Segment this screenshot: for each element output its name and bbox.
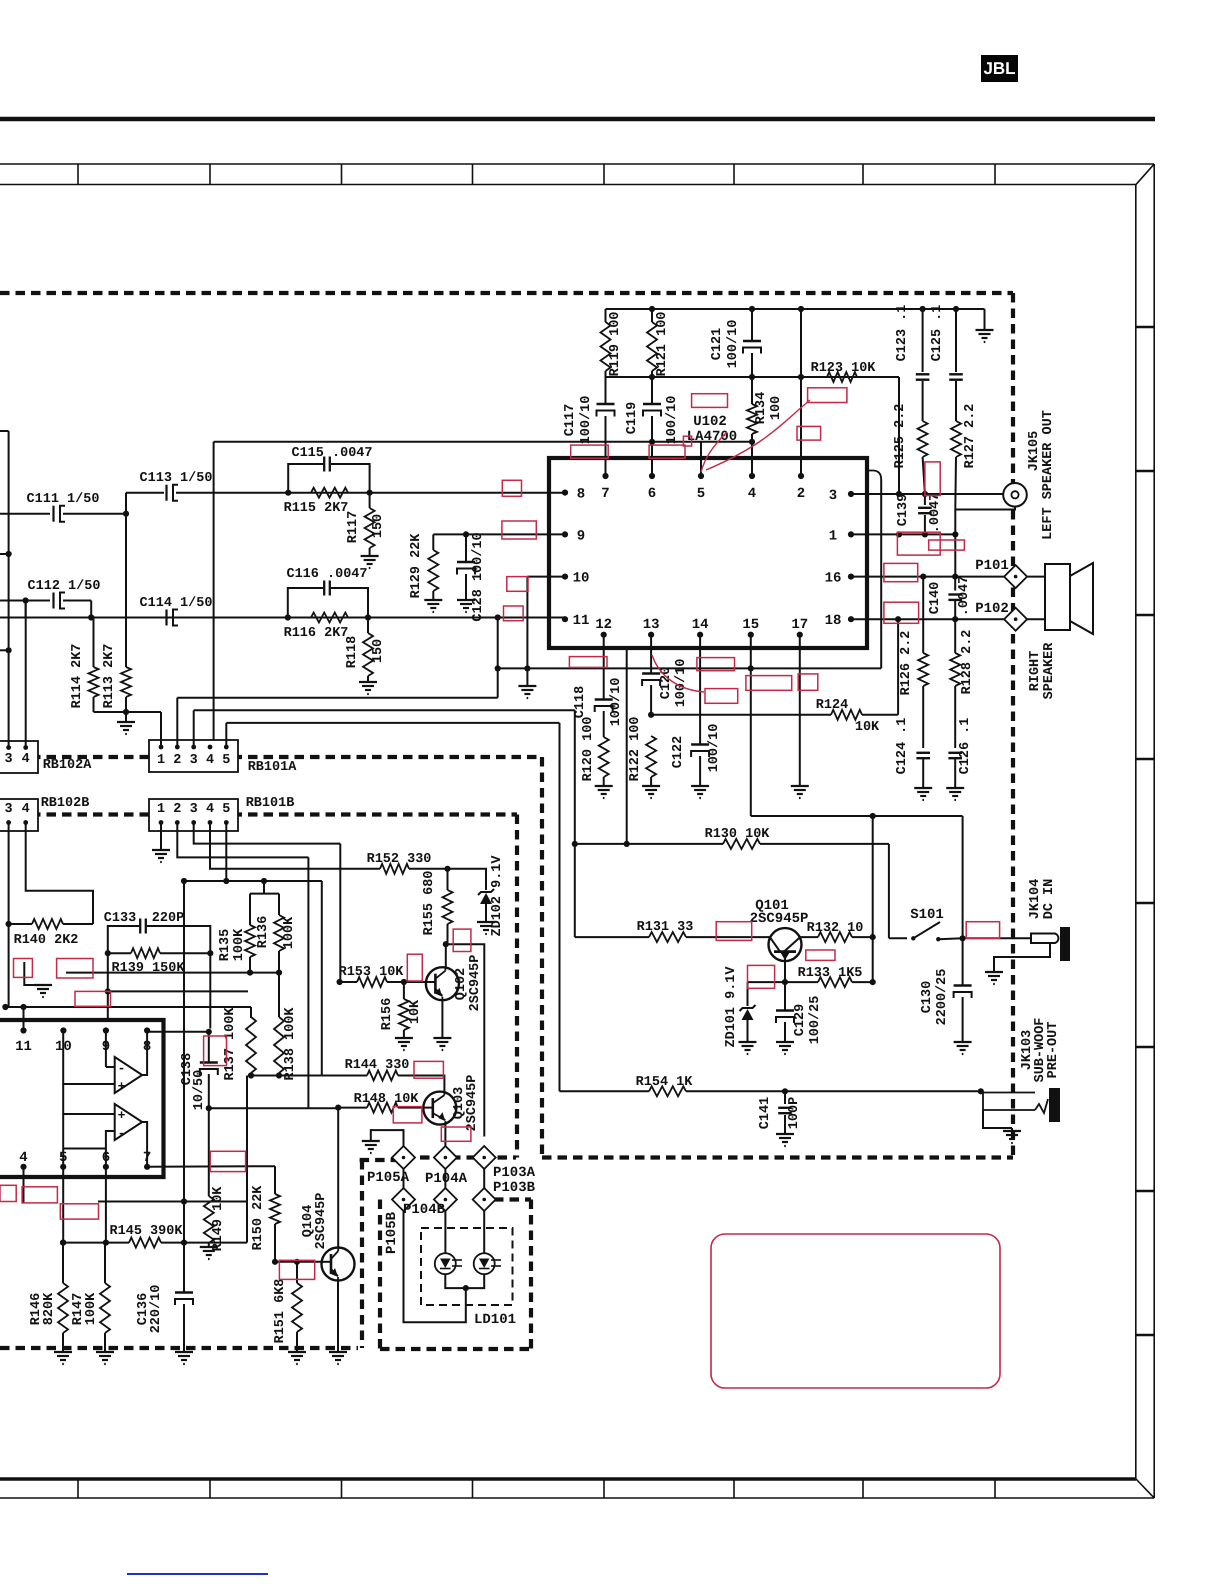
svg-text:10K: 10K bbox=[408, 999, 423, 1024]
op-amp IC U102 box bbox=[549, 458, 867, 648]
ground below R117 bbox=[361, 555, 379, 557]
wire R137 R138 bottoms to R144 row bbox=[251, 1075, 322, 1077]
capacitor C115 .0047 bbox=[288, 464, 323, 493]
svg-text:2: 2 bbox=[797, 486, 805, 502]
svg-text:-: - bbox=[118, 1061, 126, 1076]
svg-text:2SC945P: 2SC945P bbox=[468, 955, 483, 1012]
resistor R137 100K bbox=[250, 1007, 252, 1017]
capacitor C121 100/10 bbox=[751, 309, 753, 341]
JBL logo bbox=[981, 55, 1018, 82]
svg-text:R131 33: R131 33 bbox=[637, 920, 694, 935]
wire R123 to pin3 bbox=[898, 377, 900, 494]
svg-text:4: 4 bbox=[22, 802, 30, 817]
wire pin18 to P102 bbox=[851, 618, 1004, 620]
svg-text:R119 100: R119 100 bbox=[608, 312, 623, 377]
capacitor C136 220/10 bbox=[183, 1243, 185, 1293]
svg-text:P102: P102 bbox=[975, 601, 1009, 617]
svg-text:10K: 10K bbox=[855, 720, 880, 735]
blue reference line bbox=[127, 1573, 268, 1575]
wires into RB101A bbox=[160, 712, 162, 747]
svg-text:R117: R117 bbox=[346, 511, 361, 543]
svg-text:C126 .1: C126 .1 bbox=[958, 718, 973, 775]
resistor R123 10K bbox=[801, 376, 827, 378]
U101 bottom pins 4 5 6 7 bbox=[20, 1164, 26, 1170]
svg-text:.0047: .0047 bbox=[928, 493, 943, 534]
U101 top pins 11 10 9 8 bbox=[20, 1027, 26, 1033]
svg-text:R154 1K: R154 1K bbox=[636, 1075, 694, 1090]
svg-text:R156: R156 bbox=[380, 998, 395, 1030]
svg-text:+: + bbox=[118, 1079, 126, 1094]
U102 tab stub to pin16 net bbox=[866, 471, 881, 480]
RB101B pin wires bbox=[160, 823, 162, 851]
capacitor C112 1/50 bbox=[0, 600, 50, 602]
svg-text:2: 2 bbox=[173, 753, 181, 768]
connector P103B bbox=[473, 1188, 496, 1211]
svg-text:RB102B: RB102B bbox=[41, 796, 90, 811]
svg-text:13: 13 bbox=[643, 617, 660, 633]
capacitor C117 100/10 bbox=[605, 377, 607, 404]
svg-text:5: 5 bbox=[697, 486, 705, 502]
svg-text:P103A: P103A bbox=[493, 1165, 536, 1181]
svg-text:SPEAKER: SPEAKER bbox=[1042, 642, 1057, 700]
svg-text:C124 .1: C124 .1 bbox=[895, 718, 910, 775]
svg-text:R113 2K7: R113 2K7 bbox=[102, 644, 117, 709]
svg-text:8: 8 bbox=[577, 487, 585, 503]
svg-text:C113 1/50: C113 1/50 bbox=[140, 471, 213, 486]
svg-text:2SC945P: 2SC945P bbox=[465, 1075, 480, 1132]
capacitor C116 .0047 bbox=[288, 588, 323, 618]
svg-text:R127 2.2: R127 2.2 bbox=[963, 404, 978, 469]
svg-text:150: 150 bbox=[371, 514, 386, 538]
wire pin16 to P101 bbox=[851, 576, 1004, 578]
svg-text:DC IN: DC IN bbox=[1042, 879, 1057, 920]
svg-text:16: 16 bbox=[825, 571, 842, 587]
connector P101 bbox=[1004, 565, 1027, 588]
svg-text:C141: C141 bbox=[758, 1097, 773, 1129]
wire pin10 to ground bbox=[527, 576, 565, 578]
svg-text:R126 2.2: R126 2.2 bbox=[899, 631, 914, 696]
op-amp A wires bbox=[105, 1031, 107, 1068]
svg-text:-: - bbox=[118, 1126, 126, 1141]
svg-text:3: 3 bbox=[190, 753, 198, 768]
svg-text:RIGHT: RIGHT bbox=[1028, 651, 1043, 692]
wire row pin11 / C114 / R116 bbox=[0, 617, 565, 619]
transistor Q101 2SC945P bbox=[769, 928, 802, 961]
U102 right pins 3 1 16 18 bbox=[848, 491, 854, 497]
Q104 base wire bbox=[275, 1261, 321, 1263]
capacitor C118 100/10 bbox=[603, 635, 605, 700]
LED LD101 wires bbox=[444, 1211, 446, 1254]
resistor R113 2K7 bbox=[121, 667, 131, 697]
resistor R134 100 bbox=[747, 404, 757, 434]
svg-text:2SC945P: 2SC945P bbox=[314, 1193, 329, 1250]
svg-text:10: 10 bbox=[573, 571, 590, 587]
resistor R116 2K7 bbox=[311, 613, 348, 623]
svg-text:C114 1/50: C114 1/50 bbox=[140, 596, 213, 611]
LD101 inner dashed box bbox=[421, 1228, 513, 1305]
svg-text:10/50: 10/50 bbox=[192, 1070, 207, 1111]
op-amp B triangle bbox=[115, 1104, 143, 1140]
svg-text:2: 2 bbox=[173, 802, 181, 817]
svg-text:LD101: LD101 bbox=[474, 1312, 516, 1328]
resistor R119 100 bbox=[605, 309, 607, 322]
svg-text:100/25: 100/25 bbox=[808, 996, 823, 1045]
svg-text:R145 390K: R145 390K bbox=[110, 1224, 184, 1239]
svg-text:RB101B: RB101B bbox=[246, 796, 295, 811]
capacitor C129 100/25 bbox=[784, 982, 786, 1010]
resistor R126 2.2 bbox=[922, 577, 924, 653]
svg-text:4: 4 bbox=[206, 753, 214, 768]
transistor Q103 2SC945P bbox=[423, 1092, 456, 1125]
svg-text:1: 1 bbox=[157, 753, 165, 768]
resistor R155 680 bbox=[447, 869, 449, 890]
resistor R150 22K bbox=[274, 1166, 276, 1194]
capacitor C128 100/10 bbox=[465, 534, 467, 562]
resistor R151 6K8 bbox=[296, 1262, 298, 1283]
svg-text:R114 2K7: R114 2K7 bbox=[70, 644, 85, 709]
resistor R114 2K7 bbox=[25, 601, 27, 618]
resistor R156 10K bbox=[403, 982, 405, 999]
resistor R117 150 bbox=[369, 493, 371, 508]
svg-text:JBL: JBL bbox=[983, 59, 1015, 78]
wires between A and B connector rows bbox=[403, 1169, 405, 1188]
capacitor C114 1/50 bbox=[165, 610, 167, 626]
svg-text:R121 100: R121 100 bbox=[655, 312, 670, 377]
transistor Q102 2SC945P bbox=[426, 967, 459, 1000]
wire C133 node down to opamp bbox=[107, 953, 109, 991]
svg-text:R137 100K: R137 100K bbox=[223, 1007, 238, 1081]
svg-text:150: 150 bbox=[371, 639, 386, 663]
svg-text:RB102A: RB102A bbox=[43, 758, 93, 773]
svg-text:3: 3 bbox=[829, 488, 837, 504]
svg-text:ZD102 9.1V: ZD102 9.1V bbox=[490, 855, 505, 937]
resistor R153 10K bbox=[337, 979, 343, 985]
connector P103A bbox=[473, 1146, 496, 1169]
svg-text:220/10: 220/10 bbox=[149, 1285, 164, 1334]
resistor R154 1K bbox=[560, 1090, 650, 1092]
LD101 board dashed outline bbox=[378, 1200, 382, 1350]
svg-text:R149 10K: R149 10K bbox=[211, 1186, 226, 1252]
svg-text:9: 9 bbox=[577, 528, 585, 544]
svg-text:P104B: P104B bbox=[403, 1202, 446, 1218]
svg-text:220P: 220P bbox=[152, 911, 184, 926]
R129 22K bbox=[433, 533, 565, 535]
capacitor C124 .1 bbox=[916, 752, 930, 754]
resistor R122 100 bbox=[646, 736, 656, 777]
Q104 emitter ground bbox=[337, 1281, 339, 1353]
svg-text:C128 100/10: C128 100/10 bbox=[471, 532, 486, 621]
resistor R132 10 bbox=[800, 936, 818, 938]
svg-text:C112 1/50: C112 1/50 bbox=[28, 579, 101, 594]
switch S101 bbox=[889, 937, 907, 939]
U102 left pins 8 9 10 11 bbox=[562, 490, 568, 496]
resistor R152 330 bbox=[380, 864, 409, 874]
svg-text:LEFT SPEAKER OUT: LEFT SPEAKER OUT bbox=[1041, 410, 1056, 540]
capacitor C123 .1 bbox=[922, 309, 924, 372]
wire node row bbox=[108, 990, 248, 992]
resistor R128 2.2 bbox=[954, 619, 956, 653]
svg-text:R133 1K5: R133 1K5 bbox=[798, 966, 863, 981]
capacitor C125 .1 bbox=[955, 309, 957, 372]
svg-text:100: 100 bbox=[769, 396, 784, 420]
svg-text:R153 10K: R153 10K bbox=[339, 965, 405, 980]
resistor R139 150K bbox=[105, 950, 111, 956]
svg-text:C121: C121 bbox=[710, 328, 725, 360]
svg-text:Q102: Q102 bbox=[454, 968, 469, 1000]
svg-text:R148 10K: R148 10K bbox=[354, 1092, 420, 1107]
resistor R136 100K bbox=[278, 894, 280, 915]
connector RB102B bbox=[0, 799, 38, 831]
svg-text:2200/25: 2200/25 bbox=[935, 969, 950, 1026]
resistor R125 2.2 bbox=[918, 421, 928, 457]
svg-text:5: 5 bbox=[222, 753, 230, 768]
svg-text:+: + bbox=[118, 1108, 126, 1123]
svg-text:R129 22K: R129 22K bbox=[409, 533, 424, 599]
op-amp A triangle bbox=[115, 1057, 143, 1093]
svg-text:R144 330: R144 330 bbox=[345, 1058, 410, 1073]
svg-text:C119: C119 bbox=[625, 402, 640, 434]
resistor R140 2K2 bbox=[8, 823, 10, 925]
wire pin15 down bbox=[750, 635, 752, 816]
ground below R118 bbox=[359, 681, 377, 683]
wire R145 row up to R137 bbox=[246, 1076, 248, 1243]
svg-text:R151 6K8: R151 6K8 bbox=[273, 1279, 288, 1344]
connector P104A bbox=[434, 1146, 457, 1169]
svg-text:R122 100: R122 100 bbox=[628, 717, 643, 782]
resistor R124 10K bbox=[651, 714, 831, 716]
zener ZD101 9.1V bbox=[748, 981, 786, 983]
ground below R129 bbox=[424, 599, 442, 601]
svg-text:.0047: .0047 bbox=[957, 576, 972, 617]
svg-text:C133: C133 bbox=[104, 911, 136, 926]
LED 2 bbox=[474, 1253, 495, 1274]
red annotation curves bbox=[706, 400, 810, 470]
svg-text:R120 100: R120 100 bbox=[581, 717, 596, 782]
LED 1 bbox=[435, 1253, 456, 1274]
sub board dashed outline bbox=[0, 812, 517, 816]
svg-text:3: 3 bbox=[5, 752, 13, 767]
capacitor C138 10/50 bbox=[208, 1032, 210, 1062]
svg-text:C122: C122 bbox=[671, 736, 686, 768]
wire Q101 collector node down bbox=[872, 816, 874, 982]
svg-text:R134: R134 bbox=[754, 392, 769, 424]
svg-text:6: 6 bbox=[648, 486, 656, 502]
svg-text:3: 3 bbox=[5, 802, 13, 817]
svg-text:4: 4 bbox=[206, 802, 214, 817]
capacitor C122 100/10 bbox=[699, 635, 701, 744]
svg-text:R115 2K7: R115 2K7 bbox=[284, 501, 349, 516]
capacitor C111 1/50 bbox=[0, 513, 50, 515]
svg-text:R116 2K7: R116 2K7 bbox=[284, 626, 349, 641]
connector P105A bbox=[392, 1146, 415, 1169]
ground stub near P105A bbox=[371, 1130, 404, 1146]
ground stub left bbox=[24, 962, 43, 985]
jack JK105 left speaker out bbox=[1003, 483, 1027, 507]
jack JK104 DC IN bbox=[963, 937, 1031, 939]
resistor R138 100K bbox=[274, 1017, 284, 1073]
ground below C128 bbox=[457, 599, 475, 601]
svg-text:R125 2.2: R125 2.2 bbox=[893, 404, 908, 469]
capacitor C119 100/10 bbox=[651, 377, 653, 404]
resistor R131 33 bbox=[575, 936, 649, 938]
capacitor C140 .0047 bbox=[954, 577, 956, 591]
svg-text:100K: 100K bbox=[232, 928, 247, 961]
svg-text:C125 .1: C125 .1 bbox=[930, 305, 945, 362]
svg-text:P105B: P105B bbox=[384, 1211, 400, 1254]
zener ZD102 9.1V bbox=[448, 869, 487, 890]
svg-text:100K: 100K bbox=[282, 916, 297, 949]
svg-text:R139 150K: R139 150K bbox=[112, 961, 186, 976]
C136 column bbox=[183, 881, 185, 1243]
capacitor C133 220P bbox=[108, 926, 139, 953]
svg-text:3: 3 bbox=[190, 802, 198, 817]
svg-text:RB101A: RB101A bbox=[248, 760, 298, 775]
svg-text:U102: U102 bbox=[693, 414, 727, 430]
pin 5 6 wires to R145 row bbox=[62, 1167, 64, 1243]
resistor R144 330 bbox=[322, 1075, 367, 1077]
svg-text:14: 14 bbox=[692, 617, 709, 633]
connector RB101B bbox=[149, 799, 238, 831]
svg-text:12: 12 bbox=[595, 617, 612, 633]
capacitor C130 2200/25 bbox=[962, 938, 964, 985]
resistor R147 100K bbox=[104, 1243, 106, 1283]
svg-text:S101: S101 bbox=[910, 907, 944, 923]
svg-text:C129: C129 bbox=[793, 1004, 808, 1036]
svg-text:4: 4 bbox=[19, 1150, 27, 1166]
svg-text:PRE-OUT: PRE-OUT bbox=[1046, 1022, 1061, 1079]
svg-text:2SC945P: 2SC945P bbox=[750, 911, 809, 927]
resistor R146 820K bbox=[62, 1243, 64, 1283]
wire row 1007 bbox=[5, 1006, 251, 1008]
svg-text:P103B: P103B bbox=[493, 1180, 536, 1196]
wire pin17 to ground bbox=[799, 635, 801, 786]
wire R138 top bbox=[278, 973, 280, 1017]
op-amp IC U101 box bbox=[0, 1020, 164, 1177]
svg-text:R138 100K: R138 100K bbox=[283, 1007, 298, 1081]
ground below Q102 bbox=[441, 1000, 443, 1038]
svg-text:C115 .0047: C115 .0047 bbox=[291, 446, 372, 461]
wires above RB102A bbox=[8, 431, 10, 748]
red annotation boxes bbox=[692, 394, 728, 408]
svg-text:100/10: 100/10 bbox=[674, 659, 689, 708]
red note area bbox=[711, 1234, 1000, 1388]
ground at rail end bbox=[984, 309, 986, 330]
svg-text:C117: C117 bbox=[563, 404, 578, 436]
pin 7 row bbox=[147, 1165, 275, 1168]
svg-text:7: 7 bbox=[601, 486, 609, 502]
wire row 1202 bbox=[181, 1198, 187, 1204]
svg-text:5: 5 bbox=[222, 802, 230, 817]
resistor R118 150 bbox=[367, 618, 369, 634]
border frame bbox=[0, 117, 1155, 122]
connector P104B bbox=[434, 1188, 457, 1211]
capacitor C139 .0047 bbox=[924, 494, 926, 505]
svg-text:4: 4 bbox=[22, 752, 30, 767]
connector P102 bbox=[1004, 608, 1027, 631]
svg-text:18: 18 bbox=[825, 613, 842, 629]
svg-text:11: 11 bbox=[15, 1039, 32, 1055]
main board dashed outline bbox=[0, 291, 1013, 295]
U102 top pins 7 6 5 4 2 bbox=[602, 473, 608, 479]
capacitor C120 100/10 bbox=[650, 635, 652, 674]
svg-text:JK105: JK105 bbox=[1027, 431, 1042, 472]
svg-text:4: 4 bbox=[748, 486, 756, 502]
svg-text:R130 10K: R130 10K bbox=[705, 827, 771, 842]
svg-text:R124: R124 bbox=[816, 698, 848, 713]
pin 4 stub bbox=[23, 1167, 25, 1203]
pin 11 wire bbox=[23, 1007, 25, 1031]
svg-text:R128 2.2: R128 2.2 bbox=[960, 630, 975, 695]
ground bus under U102 bbox=[498, 667, 882, 669]
capacitor C113 1/50 bbox=[126, 492, 164, 494]
wire R135 R136 tops bbox=[250, 893, 279, 895]
svg-text:R152 330: R152 330 bbox=[367, 852, 432, 867]
svg-text:C130: C130 bbox=[920, 981, 935, 1013]
svg-text:100/10: 100/10 bbox=[726, 320, 741, 369]
svg-text:R140 2K2: R140 2K2 bbox=[14, 933, 79, 948]
svg-text:R123 10K: R123 10K bbox=[811, 361, 877, 376]
wire C111 node down to R113 bbox=[125, 514, 127, 667]
wire row pin8 bbox=[288, 492, 565, 494]
emitter wire Q101 bbox=[784, 961, 786, 982]
capacitor C141 100P bbox=[784, 1091, 786, 1104]
wire pin2 column bbox=[800, 309, 802, 476]
svg-text:JK104: JK104 bbox=[1028, 879, 1043, 920]
svg-text:R118: R118 bbox=[345, 636, 360, 668]
svg-text:17: 17 bbox=[791, 617, 808, 633]
wire C138 node to R148 bbox=[209, 1107, 338, 1109]
wire pin15 node row to S101 column bbox=[751, 815, 963, 817]
wire down to Q104 collector bbox=[337, 1108, 339, 1247]
connector P105B bbox=[392, 1188, 415, 1211]
U102 bottom pins 12 13 14 15 17 bbox=[601, 632, 607, 638]
connector RB102A bbox=[0, 741, 38, 773]
svg-text:820K: 820K bbox=[42, 1292, 57, 1325]
svg-text:R155 680: R155 680 bbox=[422, 871, 437, 936]
input wire to pin5 bbox=[214, 441, 752, 443]
svg-text:C123 .1: C123 .1 bbox=[895, 305, 910, 362]
resistor R145 390K bbox=[63, 1242, 129, 1244]
tab stub from U102 bbox=[626, 650, 628, 844]
junction C111/C113 bbox=[123, 511, 129, 517]
feedback wire node bbox=[606, 376, 900, 378]
connector RB101A bbox=[149, 740, 238, 772]
svg-text:R136: R136 bbox=[256, 916, 271, 948]
svg-text:100/10: 100/10 bbox=[665, 396, 680, 445]
svg-text:100/10: 100/10 bbox=[579, 396, 594, 445]
resistor R121 100 bbox=[651, 309, 653, 322]
svg-text:100/10: 100/10 bbox=[707, 724, 722, 773]
svg-text:C140: C140 bbox=[928, 582, 943, 614]
svg-text:C111 1/50: C111 1/50 bbox=[27, 492, 100, 507]
LED return wires bbox=[445, 1274, 484, 1288]
capacitor C126 .1 bbox=[948, 752, 962, 754]
svg-text:1: 1 bbox=[157, 802, 165, 817]
wire pin3 to jack bbox=[851, 493, 1004, 495]
resistor R115 2K7 bbox=[311, 488, 348, 498]
right speaker icon bbox=[1027, 576, 1045, 578]
ground below R113 R114 bbox=[94, 711, 162, 713]
resistor R127 2.2 bbox=[951, 421, 961, 457]
svg-text:C139: C139 bbox=[896, 494, 911, 526]
svg-text:R135: R135 bbox=[218, 929, 233, 961]
emitter Q103 to P104A bbox=[444, 1125, 446, 1148]
op-amp B wires bbox=[63, 1084, 114, 1114]
svg-text:100K: 100K bbox=[84, 1292, 99, 1325]
svg-text:C116 .0047: C116 .0047 bbox=[286, 567, 367, 582]
resistor R149 10K bbox=[208, 1108, 210, 1196]
transistor Q104 2SC945P bbox=[322, 1248, 355, 1281]
